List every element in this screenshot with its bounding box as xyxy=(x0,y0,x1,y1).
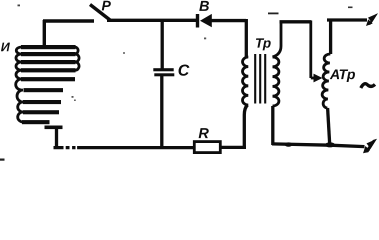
resistor R body xyxy=(194,142,220,153)
wire coil I top lead xyxy=(43,20,46,46)
transformer Tr primary winding xyxy=(242,57,248,105)
stray dash top right xyxy=(348,7,353,9)
wire tap arrow shaft xyxy=(311,77,317,80)
svg-text:И: И xyxy=(1,40,11,54)
svg-text:Р: Р xyxy=(101,0,111,13)
stray dot bottom-left edge xyxy=(0,159,5,161)
wire capacitor C top lead xyxy=(161,19,164,69)
faint worn spots on bottom rail near coil xyxy=(64,145,78,150)
diode B triangle xyxy=(200,14,212,27)
wire top-right rail to terminal xyxy=(327,18,367,21)
wire top-left rail from coil corner to switch P left contact xyxy=(43,19,94,22)
junction blob on secondary rail xyxy=(285,142,293,146)
capacitor C top plate xyxy=(153,68,173,71)
wire tap lead down xyxy=(309,21,312,79)
svg-text:АТр: АТр xyxy=(329,66,356,82)
stray dot near switch xyxy=(18,5,21,7)
wire switch right contact to diode anode xyxy=(107,19,196,22)
stray dot below diode label xyxy=(204,38,206,40)
svg-text:В: В xyxy=(199,0,209,15)
wire rail from primary bottom to resistor xyxy=(220,146,246,149)
transformer Tr core lines xyxy=(255,54,265,104)
tap arrowhead into ATr xyxy=(314,74,323,83)
wire transformer secondary top lead xyxy=(273,21,282,57)
label AC tilde xyxy=(361,84,375,88)
wire ATr bottom lead xyxy=(328,108,330,146)
transformer Tr secondary winding xyxy=(273,57,279,106)
wire diode cathode to transformer primary corner xyxy=(211,19,246,22)
diode B cathode bar xyxy=(196,14,199,28)
stray specks right of coil xyxy=(72,96,74,98)
svg-text:С: С xyxy=(178,63,190,80)
terminal arrowhead top-right xyxy=(366,13,378,26)
wire transformer secondary bottom lead xyxy=(271,106,274,145)
wire transformer primary top lead xyxy=(245,19,248,57)
coil I right end caps xyxy=(75,47,79,70)
svg-text:Тр: Тр xyxy=(255,36,271,51)
junction blob ATr bottom xyxy=(325,142,335,147)
wire ATr top lead xyxy=(329,19,332,55)
capacitor C bottom plate xyxy=(154,73,174,76)
wire capacitor C bottom lead xyxy=(160,76,163,148)
svg-text:R: R xyxy=(198,126,209,142)
switch P blade xyxy=(90,5,110,21)
coil I turn bars xyxy=(21,45,76,129)
coil I left end caps xyxy=(16,47,23,122)
stray dash above bridge xyxy=(268,13,279,15)
wire transformer primary bottom lead xyxy=(244,105,247,148)
wire bridge from secondary top to tap xyxy=(280,20,312,23)
autotransformer ATr winding xyxy=(322,54,330,108)
wire bottom-right rail to terminal xyxy=(272,144,365,147)
wire bottom rail from coil to resistor xyxy=(54,146,196,149)
wire coil I bottom lead xyxy=(55,127,58,146)
terminal arrowhead bottom-right xyxy=(363,139,377,154)
stray dot left of capacitor xyxy=(123,52,125,54)
